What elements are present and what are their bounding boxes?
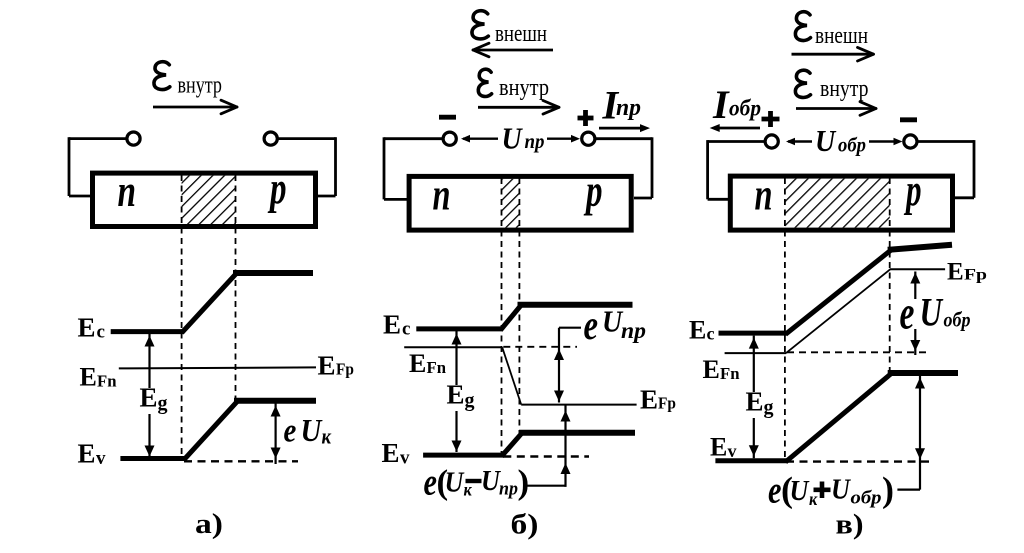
panel a: label e U_к xyxy=(284,411,332,449)
panel b: band gap upper arrowhead xyxy=(452,334,462,345)
svg-text:внутр: внутр xyxy=(178,73,223,99)
panel c: label E_c xyxy=(689,316,715,345)
panel c: electron Fermi level line xyxy=(725,352,787,354)
svg-text:e: e xyxy=(424,461,438,503)
panel c: conduction band left segment xyxy=(719,331,788,336)
panel a: wire top left horizontal xyxy=(69,137,128,140)
panel a: eU_k dimension line xyxy=(275,403,277,464)
panel b: hole Fermi level line xyxy=(521,404,636,406)
panel a: band gap lower arrowhead xyxy=(145,446,155,457)
panel c: label E_Fn xyxy=(703,355,741,384)
panel b: eU_пр upper arrowhead xyxy=(554,349,564,360)
svg-text:g: g xyxy=(764,397,774,419)
panel a: depletion left boundary dashed line xyxy=(181,175,183,460)
panel b: left terminal xyxy=(443,132,456,145)
panel c: label e U_обр xyxy=(900,286,971,339)
panel a: label E_c xyxy=(78,313,105,343)
panel c: EMF symbol script-E (internal field) xyxy=(795,70,810,97)
svg-text:Fn: Fn xyxy=(427,358,447,377)
panel c: wire stub into box right side xyxy=(955,196,974,199)
svg-text:внешн: внешн xyxy=(495,21,547,47)
panel c: U_обр right pointer arrow xyxy=(869,138,903,146)
panel a: internal field arrow pointing right xyxy=(153,100,237,114)
svg-text:p: p xyxy=(583,166,602,216)
panel c: label E_g xyxy=(742,387,779,419)
panel b: conduction band right segment xyxy=(518,302,633,308)
svg-text:E: E xyxy=(689,316,706,345)
svg-text:g: g xyxy=(158,393,168,415)
svg-text:U: U xyxy=(445,465,466,498)
svg-text:пр: пр xyxy=(621,318,646,343)
panel a: wire left vertical xyxy=(68,137,71,196)
panel b: label U_пр xyxy=(502,122,545,156)
panel c: EMF symbol script-E (external field) xyxy=(795,12,810,41)
svg-text:б): б) xyxy=(511,509,539,541)
panel b: band gap dimension line xyxy=(455,331,457,452)
panel c: internal field arrow pointing right xyxy=(796,102,876,116)
svg-text:e: e xyxy=(768,469,782,511)
svg-text:g: g xyxy=(465,390,475,412)
panel b: e(Uk−Uпр) dimension line xyxy=(564,405,566,487)
svg-text:пр: пр xyxy=(616,95,641,121)
svg-text:n: n xyxy=(118,166,137,216)
panel b: EMF symbol script-E (internal field) xyxy=(478,69,491,96)
panel a: depletion region hatching xyxy=(182,176,236,224)
panel b: depletion region hatching xyxy=(502,179,520,228)
panel a: eU_k upper arrowhead xyxy=(271,406,281,417)
panel b: eU_пр lower arrowhead xyxy=(554,391,564,402)
panel c: band gap lower arrowhead xyxy=(749,445,759,456)
svg-text:E: E xyxy=(140,383,158,413)
panel c: label E_v xyxy=(710,433,737,462)
panel b: wire left vertical xyxy=(383,137,386,199)
panel c: conduction band right segment xyxy=(888,245,952,250)
panel b: depletion right boundary dashed line xyxy=(518,178,520,433)
panel b: e(Uk−Uпр) bracket to label xyxy=(527,485,566,487)
svg-text:e: e xyxy=(284,411,297,449)
panel b: valence band rise xyxy=(502,434,522,456)
svg-text:p: p xyxy=(267,164,286,214)
panel a: wire top right horizontal xyxy=(277,137,336,140)
panel b: forward current arrow xyxy=(599,124,650,132)
panel b: conduction band left segment xyxy=(416,326,502,331)
panel a: valence band right segment xyxy=(234,398,316,404)
panel a: left terminal xyxy=(127,132,140,145)
panel c: reverse current arrow xyxy=(710,124,760,132)
svg-text:Fp: Fp xyxy=(964,267,987,284)
svg-text:Fn: Fn xyxy=(97,372,117,391)
svg-text:e: e xyxy=(584,302,599,349)
panel b: valence level extension dashed line xyxy=(503,455,589,457)
panel c: wire top right horizontal xyxy=(917,140,974,143)
panel a: Fermi level line xyxy=(119,367,316,368)
svg-text:внешн: внешн xyxy=(815,23,868,49)
panel b: EMF symbol script-E (external field) xyxy=(472,11,488,39)
svg-text:): ) xyxy=(882,470,894,510)
svg-text:Fn: Fn xyxy=(720,364,740,383)
panel b: right terminal xyxy=(582,132,595,145)
panel b: conduction band rise xyxy=(501,306,521,330)
svg-text:внутр: внутр xyxy=(499,75,549,101)
svg-text:I: I xyxy=(712,82,730,127)
panel b: e(Uk−Uпр) upper arrowhead xyxy=(561,411,571,422)
svg-text:v: v xyxy=(728,441,737,461)
panel c: wire right vertical xyxy=(973,140,976,198)
panel a: valence band rise xyxy=(184,402,237,460)
panel b: label I_пр xyxy=(602,83,642,128)
panel b: wire top right horizontal xyxy=(595,137,652,140)
svg-text:E: E xyxy=(409,349,426,378)
svg-text:E: E xyxy=(447,380,465,410)
svg-text:U: U xyxy=(301,413,324,449)
panel b: label e(U_к−U_пр) xyxy=(424,461,530,503)
svg-text:пр: пр xyxy=(525,129,545,153)
panel a: conduction band rise xyxy=(182,274,236,333)
svg-text:Fp: Fp xyxy=(658,394,676,413)
svg-text:U: U xyxy=(815,125,837,159)
svg-text:внутр: внутр xyxy=(820,76,869,102)
panel c: band gap upper arrowhead xyxy=(749,338,759,349)
panel c: U_обр left pointer arrow xyxy=(786,138,812,146)
panel b: label E_Fp xyxy=(640,385,676,415)
panel b: electron Fermi level line xyxy=(404,346,502,348)
svg-text:E: E xyxy=(78,313,96,343)
panel c: valence band right segment xyxy=(888,370,958,376)
panel b: minus sign at left terminal xyxy=(439,115,456,120)
svg-text:E: E xyxy=(383,310,401,340)
panel a: label E_v xyxy=(78,439,107,470)
panel a: valence level extension dashed line xyxy=(184,460,298,462)
panel c: depletion left boundary dashed line xyxy=(784,178,786,461)
panel c: valence band left segment xyxy=(715,458,787,463)
panel c: e(Uk+Uобр) upper arrowhead xyxy=(915,378,925,389)
panel b: label E_g xyxy=(443,380,480,412)
svg-text:U: U xyxy=(790,474,811,507)
svg-text:E: E xyxy=(746,387,764,417)
panel a: valence band left segment xyxy=(120,456,185,461)
panel c: external field arrow pointing right xyxy=(792,47,874,61)
panel b: semiconductor box xyxy=(409,176,631,230)
svg-text:E: E xyxy=(947,259,964,286)
panel b: eU_пр dimension line xyxy=(558,328,560,403)
svg-text:n: n xyxy=(433,170,451,220)
svg-text:Fp: Fp xyxy=(336,360,354,379)
svg-text:пр: пр xyxy=(499,479,518,500)
svg-text:E: E xyxy=(78,439,96,469)
panel a: band gap upper arrowhead xyxy=(145,336,155,347)
panel c: eU_обр dimension lower segment xyxy=(914,329,916,355)
panel c: wire stub into box left side xyxy=(708,198,729,201)
panel b: eU_пр dimension bracket xyxy=(559,327,581,329)
panel b: label e U_пр xyxy=(584,302,647,349)
panel c: e(Uk+Uобр) dimension line xyxy=(919,376,921,490)
panel c: conduction band rise xyxy=(786,250,891,334)
panel b: valence band left segment xyxy=(423,453,503,458)
panel b: plus sign at right terminal xyxy=(578,110,594,126)
panel a: label E_Fn xyxy=(80,363,118,392)
svg-text:E: E xyxy=(80,363,97,392)
panel b: wire stub into box right side xyxy=(634,197,652,200)
panel a: right terminal xyxy=(264,132,277,145)
svg-text:E: E xyxy=(318,351,336,381)
svg-text:U: U xyxy=(502,122,524,156)
svg-text:E: E xyxy=(703,355,720,384)
svg-text:к: к xyxy=(809,489,818,509)
panel c: label e(U_к+U_обр) xyxy=(768,469,894,511)
panel c: minus sign at right terminal xyxy=(900,117,917,122)
panel a: band gap dimension line xyxy=(148,334,150,457)
panel c: depletion right boundary dashed line xyxy=(889,178,891,373)
svg-text:обр: обр xyxy=(729,96,761,121)
panel a: label E_g xyxy=(136,383,173,415)
panel b: band gap lower arrowhead xyxy=(452,441,462,452)
svg-text:E: E xyxy=(640,385,658,415)
panel b: label E_v xyxy=(382,438,411,469)
panel c: valence level extension dashed line xyxy=(786,460,932,462)
panel a: label E_Fp xyxy=(318,351,355,381)
panel b: valence band right segment xyxy=(519,430,635,436)
panel c: eU_обр lower arrowhead xyxy=(910,340,920,351)
panel a: semiconductor box xyxy=(93,173,316,226)
svg-text:c: c xyxy=(97,322,105,343)
svg-text:а): а) xyxy=(195,508,223,540)
panel a: eU_k lower arrowhead xyxy=(271,448,281,459)
panel a: wire stub into box right side xyxy=(318,195,336,198)
svg-text:n: n xyxy=(755,170,773,220)
panel c: label E_Fp xyxy=(947,259,987,286)
panel b: internal field arrow pointing right xyxy=(478,101,559,115)
panel b: label E_Fn xyxy=(409,349,447,378)
panel a: depletion right boundary dashed line xyxy=(235,175,237,400)
panel a: EMF symbol script-E (internal field) xyxy=(154,62,170,90)
svg-text:p: p xyxy=(903,166,921,216)
panel c: depletion region hatching xyxy=(785,179,889,228)
panel b: wire stub into box left side xyxy=(384,198,408,201)
panel a: wire right vertical xyxy=(334,137,337,196)
panel c: valence band rise xyxy=(786,374,891,462)
svg-text:c: c xyxy=(402,319,410,340)
panel c: wire top left horizontal xyxy=(708,140,766,143)
panel c: label I_обр xyxy=(712,82,761,127)
panel b: external field arrow pointing left xyxy=(473,43,553,57)
svg-text:U: U xyxy=(831,472,852,505)
panel b: U_пр left pointer arrow xyxy=(461,135,498,143)
panel a: wire stub into box left side xyxy=(69,195,91,198)
panel c: eU_обр dimension upper segment xyxy=(914,272,916,300)
panel c: band gap dimension line xyxy=(753,336,755,459)
svg-text:к: к xyxy=(322,425,332,449)
panel b: wire top left horizontal xyxy=(384,137,443,140)
svg-text:E: E xyxy=(710,433,727,462)
panel c: left terminal xyxy=(765,135,778,148)
panel c: wire left vertical xyxy=(706,140,709,199)
panel b: EFn extension dashed line xyxy=(503,346,577,348)
svg-text:в): в) xyxy=(836,509,864,541)
svg-text:): ) xyxy=(518,463,530,502)
svg-text:U: U xyxy=(920,290,944,335)
svg-text:e: e xyxy=(900,286,915,339)
svg-text:обр: обр xyxy=(944,308,971,332)
panel b: label E_c xyxy=(383,310,410,340)
panel c: label U_обр xyxy=(815,125,866,159)
panel b: quasi-Fermi transition diagonal xyxy=(502,347,521,404)
panel c: hole Fermi level line xyxy=(890,268,945,270)
panel a: conduction band left segment xyxy=(111,329,183,334)
svg-text:v: v xyxy=(96,448,106,469)
panel c: right terminal xyxy=(904,135,917,148)
panel c: quasi-Fermi rise diagonal xyxy=(786,269,890,353)
panel b: wire right vertical xyxy=(651,137,654,198)
svg-text:обр: обр xyxy=(838,135,866,157)
panel c: e(Uk+Uобр) bracket to label xyxy=(897,489,920,491)
svg-text:обр: обр xyxy=(851,488,882,509)
panel c: eU_обр upper arrowhead xyxy=(910,273,920,284)
panel b: e(Uk−Uпр) mid arrowhead xyxy=(561,463,571,474)
panel b: depletion left boundary dashed line xyxy=(501,178,503,456)
panel c: EFn extension dashed line xyxy=(787,351,926,353)
panel a: conduction band right segment xyxy=(233,270,313,276)
panel b: U_пр right pointer arrow xyxy=(547,135,580,143)
panel c: e(Uk+Uобр) lower arrowhead xyxy=(915,448,925,459)
panel c: plus sign at left terminal xyxy=(762,111,780,127)
panel c: semiconductor box xyxy=(730,176,952,230)
svg-text:c: c xyxy=(707,324,715,344)
svg-text:E: E xyxy=(382,438,400,468)
svg-text:v: v xyxy=(400,448,410,469)
